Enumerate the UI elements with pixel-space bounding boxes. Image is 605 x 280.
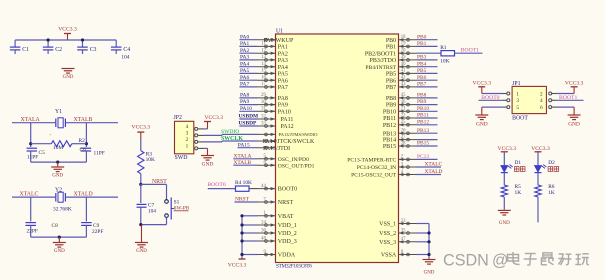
svg-text:C4: C4 <box>123 47 130 53</box>
junction <box>240 223 243 226</box>
svg-text:27: 27 <box>401 135 406 140</box>
wire <box>503 197 505 210</box>
junction <box>427 240 430 243</box>
wire <box>417 72 438 74</box>
svg-text:PA4: PA4 <box>278 65 288 71</box>
svg-text:25: 25 <box>401 120 406 125</box>
capacitor C3 <box>82 40 84 47</box>
wire <box>15 39 116 41</box>
svg-text:3: 3 <box>186 130 189 136</box>
pin PB4/INTRST U1 <box>399 66 417 68</box>
svg-text:28: 28 <box>401 141 406 146</box>
watermark CJK <box>508 252 590 265</box>
svg-text:PA1: PA1 <box>278 45 288 51</box>
pin PC15-OSC32_OUT U1 <box>399 174 417 176</box>
wire <box>30 123 32 147</box>
resistor R3 <box>140 139 142 151</box>
wire <box>239 110 257 112</box>
ground (JP1 right) <box>556 106 575 108</box>
svg-text:11: 11 <box>261 42 266 47</box>
svg-text:JP2: JP2 <box>174 115 182 121</box>
wire <box>455 52 483 54</box>
wire <box>239 97 257 99</box>
svg-text:PB9: PB9 <box>386 103 396 109</box>
svg-text:36: 36 <box>261 228 266 233</box>
svg-text:PB12: PB12 <box>417 119 429 125</box>
svg-text:PB4/INTRST: PB4/INTRST <box>365 65 396 71</box>
pin 5 JP1 <box>507 106 510 109</box>
svg-text:C1: C1 <box>22 47 29 53</box>
svg-text:R2: R2 <box>79 138 86 144</box>
svg-text:BOOT1: BOOT1 <box>559 95 577 101</box>
svg-text:32: 32 <box>261 114 266 119</box>
junction <box>85 142 88 145</box>
wire <box>417 166 442 168</box>
svg-text:D2: D2 <box>548 160 555 166</box>
svg-text:33: 33 <box>261 121 266 126</box>
resistor R5 <box>503 173 505 185</box>
svg-text:PB7: PB7 <box>386 85 396 91</box>
svg-text:VCC3.3: VCC3.3 <box>58 27 77 33</box>
svg-text:PA12: PA12 <box>281 124 294 130</box>
pin PA7 U1 <box>258 86 276 88</box>
pin OSC_IN/PD0 U1 <box>258 158 276 160</box>
pin VDD_2 U1 <box>258 232 276 234</box>
svg-text:1: 1 <box>516 91 519 97</box>
junction <box>139 183 142 186</box>
svg-text:VCC3.3: VCC3.3 <box>473 81 492 87</box>
svg-text:PB15: PB15 <box>383 144 396 150</box>
svg-text:4: 4 <box>186 124 189 130</box>
svg-text:10K: 10K <box>440 58 449 64</box>
svg-text:PA2: PA2 <box>278 51 288 57</box>
resistor R1 <box>417 52 442 54</box>
svg-text:PA6: PA6 <box>278 78 288 84</box>
junction <box>29 142 32 145</box>
wire <box>233 164 257 166</box>
svg-text:@: @ <box>492 252 508 270</box>
pin PA10 U1 <box>258 110 276 112</box>
svg-text:GND: GND <box>202 162 214 168</box>
wire <box>85 197 87 221</box>
pin VBAT U1 <box>258 215 276 217</box>
svg-text:NRST: NRST <box>235 197 250 203</box>
pin 2 JP2 <box>195 140 198 143</box>
svg-text:15: 15 <box>261 69 266 74</box>
svg-text:26: 26 <box>401 129 406 134</box>
svg-text:6: 6 <box>540 105 543 111</box>
pin PA1 U1 <box>258 45 276 47</box>
ground (JP2) <box>204 147 208 149</box>
ground <box>57 162 59 167</box>
resistor R6 <box>537 173 539 185</box>
svg-text:PA5: PA5 <box>278 72 288 78</box>
svg-text:PB4: PB4 <box>417 61 427 67</box>
pin PA14/JTCK/SWCLK U1 <box>258 140 276 142</box>
pin VDDA U1 <box>258 254 276 256</box>
pin VSS_3 U1 <box>399 241 417 243</box>
svg-text:CSDN: CSDN <box>443 252 489 270</box>
wire <box>242 224 258 226</box>
wire <box>65 196 118 198</box>
svg-text:GND: GND <box>52 173 63 178</box>
wire VSS bus <box>428 224 430 259</box>
capacitor C9 <box>81 222 92 224</box>
svg-text:104: 104 <box>121 55 129 61</box>
junction <box>427 253 430 256</box>
svg-text:PB3: PB3 <box>417 55 427 61</box>
svg-text:PB11: PB11 <box>417 113 429 119</box>
wire <box>417 241 430 243</box>
svg-text:PB6: PB6 <box>417 75 427 81</box>
svg-text:PB5: PB5 <box>417 68 427 74</box>
wire <box>208 188 236 190</box>
pin PC13-TAMPER-RTC U1 <box>399 158 417 160</box>
pin PB11 U1 <box>399 117 417 119</box>
svg-text:R4 10K: R4 10K <box>235 180 252 186</box>
svg-text:1: 1 <box>186 143 189 149</box>
svg-text:C6: C6 <box>80 147 87 153</box>
svg-text:48: 48 <box>261 236 266 241</box>
pin 1 JP2 <box>195 147 198 150</box>
svg-text:PB1: PB1 <box>417 41 427 47</box>
ground (JP1 left) <box>482 106 503 108</box>
svg-text:VDD_2: VDD_2 <box>278 231 297 237</box>
wire <box>417 59 438 61</box>
junction <box>139 223 142 226</box>
svg-text:PB2/BOOT1: PB2/BOOT1 <box>365 51 396 57</box>
svg-text:PB15: PB15 <box>417 141 429 147</box>
svg-text:PB3/JTDO: PB3/JTDO <box>370 58 397 64</box>
pin VSS_1 U1 <box>399 223 417 225</box>
svg-text:PC13-TAMPER-RTC: PC13-TAMPER-RTC <box>347 158 396 164</box>
svg-text:14: 14 <box>261 62 266 67</box>
wire <box>65 122 118 124</box>
pin PA0-WKUP U1 <box>258 39 276 41</box>
pin 6 JP1 <box>549 106 552 109</box>
svg-text:BOOT0: BOOT0 <box>481 95 499 101</box>
svg-text:30: 30 <box>261 100 266 105</box>
svg-text:GND: GND <box>54 249 65 254</box>
svg-text:XTALB: XTALB <box>234 160 252 166</box>
power VCC3.3 (reset) <box>137 131 144 133</box>
wire <box>31 161 87 163</box>
svg-text:16: 16 <box>261 76 266 81</box>
pin PB1 U1 <box>399 45 417 47</box>
pin PB10 U1 <box>399 110 417 112</box>
svg-text:VCC3.3: VCC3.3 <box>498 146 517 152</box>
svg-text:XTALD: XTALD <box>425 169 443 175</box>
wire <box>417 132 438 134</box>
svg-text:1K: 1K <box>515 190 522 196</box>
wire <box>242 232 258 234</box>
svg-text:39: 39 <box>401 55 406 60</box>
pin VSSA U1 <box>399 254 417 256</box>
svg-text:PB7: PB7 <box>417 82 427 88</box>
pin 3 JP2 <box>195 134 198 137</box>
wire <box>417 254 430 256</box>
svg-text:24: 24 <box>261 220 266 225</box>
svg-text:C5: C5 <box>39 150 46 156</box>
svg-text:10K: 10K <box>146 157 155 163</box>
svg-text:40: 40 <box>401 62 406 67</box>
pin PB0 U1 <box>399 39 417 41</box>
svg-text:5: 5 <box>516 105 519 111</box>
wire SWDIO <box>204 134 223 136</box>
capacitor C6 <box>81 147 92 149</box>
svg-text:GND: GND <box>499 221 510 226</box>
wire <box>239 104 257 106</box>
svg-text:PA1: PA1 <box>240 41 249 47</box>
wire <box>417 124 438 126</box>
svg-text:C3: C3 <box>90 47 97 53</box>
wire <box>12 196 56 198</box>
svg-text:PB6: PB6 <box>386 78 396 84</box>
svg-text:PA7: PA7 <box>240 82 249 88</box>
svg-text:PB9: PB9 <box>417 99 427 105</box>
svg-text:3: 3 <box>516 98 519 104</box>
svg-text:PA7: PA7 <box>278 85 288 91</box>
pin BOOT0 U1 <box>258 188 276 190</box>
svg-text:1K: 1K <box>548 190 555 196</box>
svg-text:31: 31 <box>261 107 266 112</box>
wire <box>141 183 167 185</box>
junction <box>240 214 243 217</box>
capacitor C1 <box>14 40 16 47</box>
svg-text:GND: GND <box>136 249 147 254</box>
svg-text:PB11: PB11 <box>383 116 396 122</box>
pin 4 JP1 <box>549 99 552 102</box>
wire <box>239 72 257 74</box>
svg-text:PB8: PB8 <box>417 93 427 99</box>
svg-text:PA8: PA8 <box>278 96 288 102</box>
wire <box>417 110 438 112</box>
wire <box>417 145 438 147</box>
wire <box>239 118 257 120</box>
pin PB12 U1 <box>399 124 417 126</box>
svg-text:PB13: PB13 <box>383 131 396 137</box>
pin PC14-OSC32_IN U1 <box>399 166 417 168</box>
svg-text:D1: D1 <box>515 160 522 166</box>
pin NRST U1 <box>258 201 276 203</box>
svg-text:VCC3.3: VCC3.3 <box>565 81 584 87</box>
junction <box>56 161 59 164</box>
pin PA15/JTDI U1 <box>258 147 276 149</box>
svg-text:PB12: PB12 <box>383 123 396 129</box>
svg-text:VCC3.3: VCC3.3 <box>531 146 550 152</box>
power VCC3.3 (JP1 right) <box>556 93 575 95</box>
capacitor C4 <box>115 40 117 47</box>
switch S1 <box>166 184 168 199</box>
wire <box>239 79 257 81</box>
svg-text:GND: GND <box>476 121 488 127</box>
svg-text:23: 23 <box>401 219 406 224</box>
svg-text:PA6: PA6 <box>240 75 249 81</box>
svg-text:GND: GND <box>568 121 580 127</box>
svg-text:PA10: PA10 <box>240 106 252 112</box>
svg-text:USBDP: USBDP <box>239 121 258 127</box>
pin PA2 U1 <box>258 52 276 54</box>
svg-text:22PF: 22PF <box>27 229 38 235</box>
svg-text:PC15-OSC32_OUT: PC15-OSC32_OUT <box>351 173 397 179</box>
pin PB15 U1 <box>399 145 417 147</box>
svg-text:PA11: PA11 <box>281 117 294 123</box>
svg-text:VBAT: VBAT <box>278 214 294 220</box>
svg-text:C8: C8 <box>52 223 59 229</box>
svg-text:18: 18 <box>401 35 406 40</box>
svg-text:35: 35 <box>401 228 406 233</box>
svg-text:C2: C2 <box>55 47 62 53</box>
svg-text:PA3: PA3 <box>240 55 249 61</box>
net label BOOT0 (JP1) <box>479 99 503 101</box>
wire <box>31 236 87 238</box>
svg-text:VCC3.3: VCC3.3 <box>205 115 224 121</box>
wire <box>417 117 438 119</box>
wire <box>238 147 258 149</box>
svg-text:PA13/JTMS/SWDIO: PA13/JTMS/SWDIO <box>279 132 319 137</box>
wire <box>417 86 438 88</box>
pin 4 JP2 <box>195 127 198 130</box>
svg-text:42: 42 <box>401 76 406 81</box>
ground <box>498 209 511 211</box>
wire <box>417 174 442 176</box>
led D1 <box>501 166 508 173</box>
svg-text:PA0: PA0 <box>240 34 249 40</box>
svg-text:2: 2 <box>540 91 543 97</box>
wire <box>417 97 438 99</box>
svg-text:XTALA: XTALA <box>234 153 252 159</box>
svg-text:STM32F103C8T6: STM32F103C8T6 <box>276 263 312 269</box>
capacitor C7 <box>140 184 142 203</box>
power VCC3.3 (cap bank) <box>64 33 71 35</box>
svg-text:PB0: PB0 <box>386 38 396 44</box>
wire <box>239 39 257 41</box>
svg-text:47: 47 <box>401 237 406 242</box>
svg-text:Y1: Y1 <box>55 109 62 115</box>
svg-text:SWCLK: SWCLK <box>221 136 243 142</box>
junction <box>240 239 243 242</box>
svg-text:19: 19 <box>401 42 406 47</box>
svg-text:22: 22 <box>401 113 406 118</box>
wire <box>239 86 257 88</box>
svg-text:VSS_1: VSS_1 <box>379 222 396 228</box>
pin PB3/JTDO U1 <box>399 59 417 61</box>
wire VDD bus <box>241 216 243 259</box>
pin PA12 U1 <box>258 125 276 127</box>
svg-text:BOOT1: BOOT1 <box>461 48 479 54</box>
junction <box>47 38 50 41</box>
ground <box>141 225 143 243</box>
wire <box>417 79 438 81</box>
wire <box>239 125 257 127</box>
svg-text:SWDIO: SWDIO <box>221 129 239 135</box>
svg-text:44: 44 <box>261 184 266 189</box>
pin PA4 U1 <box>258 66 276 68</box>
wire <box>417 139 438 141</box>
svg-text:VDDA: VDDA <box>278 253 296 259</box>
svg-text:PC14-OSC32_IN: PC14-OSC32_IN <box>357 165 396 171</box>
svg-text:PB1: PB1 <box>386 45 396 51</box>
svg-text:10M: 10M <box>53 145 63 151</box>
ground (VSS bus) <box>428 259 430 260</box>
led D2 <box>535 166 542 173</box>
wire <box>417 66 438 68</box>
wire <box>249 188 258 190</box>
svg-text:VSS_2: VSS_2 <box>379 231 396 237</box>
svg-text:PA2: PA2 <box>240 48 249 54</box>
svg-text:VCC3.3: VCC3.3 <box>228 262 247 268</box>
svg-text:20: 20 <box>401 49 406 54</box>
junction <box>58 236 61 239</box>
wire <box>235 201 258 203</box>
svg-text:PB8: PB8 <box>386 96 396 102</box>
svg-text:GND: GND <box>63 75 74 80</box>
pin PA9 U1 <box>258 104 276 106</box>
wire <box>233 158 257 160</box>
svg-text:PA8: PA8 <box>240 93 249 99</box>
wire <box>239 66 257 68</box>
svg-text:PB10: PB10 <box>417 106 429 112</box>
svg-text:GND: GND <box>424 270 435 275</box>
svg-text:29: 29 <box>261 93 266 98</box>
svg-text:104: 104 <box>148 209 156 215</box>
svg-text:11PF: 11PF <box>94 151 105 157</box>
svg-text:BOOT0: BOOT0 <box>207 182 225 188</box>
pin PB9 U1 <box>399 104 417 106</box>
power VCC3.3 (JP1 left) <box>482 93 503 95</box>
svg-text:21: 21 <box>401 107 406 112</box>
svg-text:VSSA: VSSA <box>381 253 397 259</box>
pin PA5 U1 <box>258 72 276 74</box>
pin PB7 U1 <box>399 86 417 88</box>
wire <box>242 215 258 217</box>
svg-text:22PF: 22PF <box>92 229 103 235</box>
pin VDD_3 U1 <box>258 240 276 242</box>
wire <box>141 224 167 226</box>
pin PB8 U1 <box>399 97 417 99</box>
svg-text:PB5: PB5 <box>386 72 396 78</box>
pin VDD_1 U1 <box>258 224 276 226</box>
svg-text:17: 17 <box>261 82 266 87</box>
resistor R4 <box>236 186 250 191</box>
pin OSC_OUT/PD1 U1 <box>258 164 276 166</box>
junction <box>240 231 243 234</box>
pin PA3 U1 <box>258 59 276 61</box>
svg-text:PA0-WKUP: PA0-WKUP <box>264 38 294 44</box>
svg-text:PA4: PA4 <box>240 61 249 67</box>
pin PA8 U1 <box>258 97 276 99</box>
svg-text:BOOT: BOOT <box>512 115 528 121</box>
svg-text:PA15: PA15 <box>238 142 250 148</box>
svg-text:VCC3.3: VCC3.3 <box>132 125 151 131</box>
svg-text:BOOT0: BOOT0 <box>278 187 297 193</box>
svg-text:R1: R1 <box>440 45 447 51</box>
pin VSS_2 U1 <box>399 232 417 234</box>
svg-text:PB13: PB13 <box>417 128 429 134</box>
svg-text:PA5: PA5 <box>240 68 249 74</box>
capacitor C2 <box>47 40 49 47</box>
pin PB13 U1 <box>399 132 417 134</box>
wire <box>242 240 258 242</box>
pin PB5 U1 <box>399 72 417 74</box>
pin PB6 U1 <box>399 79 417 81</box>
capacitor C5 <box>27 147 38 149</box>
capacitor C8 <box>25 222 36 224</box>
svg-text:32.768K: 32.768K <box>53 207 72 213</box>
wire <box>239 59 257 61</box>
svg-text:OSC_IN/PD0: OSC_IN/PD0 <box>278 157 309 163</box>
svg-text:VSS_3: VSS_3 <box>379 240 396 246</box>
